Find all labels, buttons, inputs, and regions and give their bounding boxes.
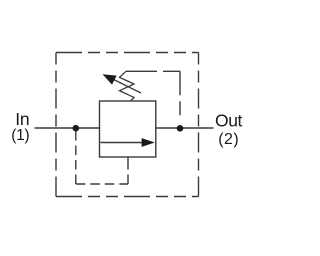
pilot line: inlet junction down and to valve bottom (dashed) (76, 128, 128, 184)
enclosure bottom edge (56, 196, 199, 198)
junction dot at outlet (177, 125, 184, 132)
spring (relief setting spring) (120, 71, 135, 101)
svg-text:(2): (2) (218, 131, 239, 148)
valve body V1 (main stage square) (100, 101, 156, 157)
svg-text:In: In (15, 109, 29, 129)
junction dot at inlet (73, 125, 80, 132)
enclosure top edge (56, 52, 199, 54)
wire: inlet line from In label to valve body (35, 127, 100, 129)
enclosure boundary (dashed cartridge envelope) (56, 53, 199, 197)
flow arrow inside valve body (101, 138, 155, 147)
svg-text:(1): (1) (11, 127, 29, 144)
svg-text:Out: Out (215, 111, 243, 131)
enclosure right edge (198, 53, 200, 197)
wire: outlet line from valve body to Out label (156, 127, 214, 129)
pilot line: spring top to outlet sense junction (dashed) (126, 71, 180, 121)
adjustment arrow across spring (103, 74, 142, 93)
enclosure left edge (55, 53, 57, 197)
